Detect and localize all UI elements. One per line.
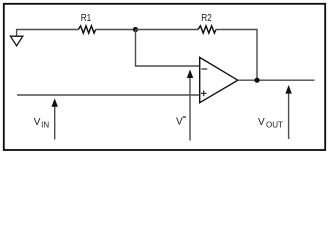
resistor R1: [78, 26, 95, 33]
svg-text:IN: IN: [41, 120, 49, 129]
svg-text:V: V: [258, 117, 265, 128]
op-amp U1: [200, 57, 238, 102]
svg-text:V: V: [34, 117, 41, 128]
wire op-amp output: [238, 79, 315, 81]
svg-text:V: V: [176, 117, 183, 128]
wire R2 to output corner: [216, 29, 257, 31]
wire to inverting input: [135, 65, 200, 67]
label VOUT: [258, 117, 283, 130]
node A junction dot: [133, 27, 138, 32]
resistor R2: [198, 26, 216, 33]
output node junction dot: [254, 78, 259, 83]
svg-text:R1: R1: [81, 13, 92, 24]
wire ground to R1: [17, 30, 79, 37]
label V-: [176, 117, 186, 128]
label VIN: [34, 117, 50, 130]
wire node A to R2: [136, 29, 199, 31]
wire feedback vertical R2 to output node: [256, 29, 258, 80]
svg-text:R2: R2: [201, 13, 212, 24]
ground: [10, 36, 22, 46]
arrow V-: [187, 69, 193, 140]
svg-text:OUT: OUT: [266, 120, 283, 129]
wire VIN to non-inverting input: [17, 94, 200, 96]
wire R1 to node A: [96, 29, 136, 31]
arrow VIN: [52, 98, 58, 139]
wire node A down: [135, 30, 137, 67]
arrow VOUT: [285, 85, 291, 139]
